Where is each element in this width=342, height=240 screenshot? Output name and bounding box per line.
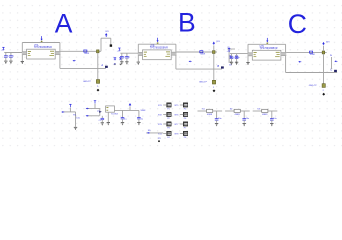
wire RC cell 2 right (240, 110, 249, 112)
wire rail right drop block B (175, 44, 177, 69)
capacitor C4 (216, 116, 218, 119)
ground RC cell 3 (270, 123, 273, 125)
connector P1 stub (163, 104, 166, 106)
port arrow block C (298, 61, 300, 63)
port A pad (105, 66, 108, 68)
ground CB2 (125, 61, 128, 63)
port arrow bias2 upper (86, 108, 88, 110)
svg-text:TPS76933DBVR: TPS76933DBVR (150, 47, 168, 50)
power port VIN arrow block A (41, 39, 43, 41)
capacitor C6 (271, 116, 273, 119)
solder jumper JB (212, 80, 215, 84)
solder jumper JC (322, 84, 325, 88)
pin tick TPB1 (230, 61, 232, 63)
svg-text:+5V: +5V (227, 51, 231, 53)
ground CA1 (4, 60, 7, 62)
test point TPA pad (97, 50, 100, 53)
connector P7 body (183, 122, 188, 126)
solder jumper JA (96, 80, 99, 84)
port C pad (334, 70, 337, 72)
port arrow connector row (147, 132, 149, 134)
svg-text:1u: 1u (238, 57, 240, 59)
UA right pin names (50, 50, 54, 52)
svg-text:600R: 600R (310, 54, 315, 56)
ground CC1 (230, 61, 233, 63)
capacitor CA2 (10, 53, 12, 56)
wire output net block A (61, 50, 102, 52)
svg-text:GND-TP: GND-TP (83, 81, 92, 83)
svg-text:+5V: +5V (117, 50, 121, 52)
ground rail left block B (137, 61, 140, 63)
no-erc marker block C (322, 93, 325, 96)
wire test point column block C (323, 54, 325, 84)
connector P6 body (183, 112, 188, 116)
wire rail right drop block C (285, 44, 287, 72)
wire rail left drop to ground block C (247, 44, 249, 62)
svg-text:1u: 1u (7, 56, 9, 58)
port arrow mid block C (334, 60, 336, 62)
wire output sense block B (176, 68, 222, 70)
wire rail left drop to ground block A (21, 43, 23, 62)
connector P2 body (167, 112, 172, 116)
power port +3V3 arrow block A (105, 33, 108, 35)
wire bridge top block A (101, 37, 111, 39)
port TPB1 glyph (230, 55, 233, 57)
svg-text:VREF: VREF (141, 110, 147, 112)
connector P3 body (167, 122, 172, 126)
pin 5 dot block B (157, 43, 159, 44)
svg-text:TPS76933DBVR: TPS76933DBVR (34, 46, 52, 49)
power flag bias cell 1 (69, 103, 71, 105)
capacitor CB1 (121, 53, 123, 56)
port B pad (221, 66, 224, 68)
wire output stub pair block B (171, 52, 176, 56)
wire input stub pair block C (248, 53, 253, 57)
connector P3 stub (163, 123, 166, 125)
ground C10 (101, 122, 104, 124)
wire output sense block A (60, 67, 106, 69)
svg-text:49R9: 49R9 (235, 114, 241, 116)
wire test point column block A (97, 53, 99, 80)
pin tick TPA1 (114, 63, 116, 65)
wire bridge up block A (100, 38, 102, 51)
ground U4 (107, 122, 110, 124)
port arrow bias1 (61, 111, 63, 113)
wire rail right drop block A (59, 43, 61, 69)
svg-text:B: B (217, 64, 219, 68)
capacitor CC1 (231, 54, 233, 57)
wire RC cell 1 right (213, 110, 222, 112)
UB left pin names (144, 51, 147, 53)
svg-text:Q1: Q1 (97, 110, 100, 112)
wire bridge down block A (110, 38, 112, 45)
svg-text:3V3: 3V3 (216, 41, 219, 43)
connector P5 body (183, 103, 188, 107)
svg-text:C: C (288, 9, 307, 39)
capacitor C5 (243, 116, 245, 119)
pin 5 dot block A (41, 41, 43, 42)
resistor R2 (207, 109, 213, 112)
pad bridge end block A (110, 44, 112, 46)
port TPA1 glyph (114, 57, 117, 59)
wire output net block C (286, 51, 327, 53)
connector P8 body (183, 131, 188, 135)
wire bias2 upper horizontal (87, 108, 100, 110)
pin tick TPB2 (236, 61, 238, 63)
wire port column block B (228, 49, 230, 63)
wire input net block A (4, 52, 22, 54)
svg-text:600R: 600R (200, 54, 205, 56)
resistor R10 column (75, 112, 77, 127)
port arrow block B (189, 61, 191, 63)
wire input stub pair block A (22, 51, 27, 55)
wire bias2 lower horizontal (87, 115, 100, 117)
connector P7 stub (180, 123, 183, 125)
svg-text:1u: 1u (12, 56, 14, 58)
UC left pin names (254, 52, 257, 54)
pad bottom extra (158, 140, 160, 142)
power flag input block C (228, 47, 230, 49)
svg-text:600R: 600R (84, 53, 89, 55)
port TPA2 glyph (119, 57, 122, 59)
pin tick TPA2 (120, 63, 122, 65)
capacitor C10 (101, 116, 103, 119)
wire input stub pair block B (138, 52, 143, 56)
wire test point column block B (213, 54, 215, 81)
test point TPC pad (322, 51, 325, 54)
ground C11 (121, 122, 124, 124)
ground CC2 (235, 61, 238, 63)
wire U4 ground stub (107, 112, 109, 122)
wire RC cell 1 tap (216, 111, 218, 116)
connector P4 body (167, 131, 172, 135)
ground rail left block C (246, 62, 249, 64)
connector P1 body (167, 103, 172, 107)
wire RC cell 2 left (225, 110, 234, 112)
resistor R3 (234, 109, 240, 112)
capacitor C12 (138, 110, 140, 117)
regulator UA body (27, 49, 56, 59)
port TPB2 glyph (235, 55, 238, 57)
connector P2 stub (163, 114, 166, 116)
svg-text:49R9: 49R9 (262, 114, 268, 116)
svg-text:1u: 1u (232, 57, 234, 59)
transistor Q1 (99, 109, 101, 116)
svg-text:TL1963: TL1963 (111, 114, 119, 116)
U4 pin names (106, 107, 108, 109)
wire bias1 vertical (69, 108, 71, 112)
resistor R4 (262, 109, 268, 112)
power port arrow block C (322, 42, 325, 44)
ground RC cell 1 (215, 123, 218, 125)
wire bias1 horizontal (63, 111, 76, 113)
ground CA2 (9, 60, 12, 62)
reference U4 body (106, 106, 115, 112)
wire port column block C (331, 57, 333, 69)
capacitor CA1 (5, 53, 7, 56)
port arrow block A (73, 60, 75, 62)
ferrite bead LA (84, 50, 87, 52)
wire RC cell 1 left (198, 110, 207, 112)
ground C12 (137, 122, 140, 124)
wire RC cell 3 tap (271, 111, 273, 116)
svg-text:+5V: +5V (1, 50, 5, 52)
test point TPB pad (213, 51, 216, 54)
wire output stub pair block C (281, 52, 286, 56)
wire +3V3 rail block C (248, 43, 286, 45)
wire bias2 vertical (94, 104, 96, 109)
UA left pin names (28, 50, 31, 52)
connector P8 stub (180, 133, 183, 135)
wire output stub pair block A (55, 51, 60, 55)
power port VIN arrow block C (266, 41, 268, 43)
power flag mid rail (129, 103, 132, 105)
wire column top tick block B (227, 48, 235, 50)
svg-text:B: B (178, 7, 196, 37)
regulator UB body (143, 50, 172, 60)
wire +3V3 rail block A (22, 42, 60, 44)
wire pad to power block B (213, 45, 215, 50)
ferrite bead LC (310, 51, 313, 53)
wire U4 output (114, 109, 138, 111)
port arrow bias2 lower (86, 115, 88, 117)
capacitor CC2 (236, 54, 238, 57)
capacitor C11 (122, 110, 124, 117)
power flag input block B (118, 47, 120, 49)
ground bias1 (74, 126, 77, 128)
svg-text:TPS76933DBVR: TPS76933DBVR (260, 47, 278, 50)
wire to connector P4 (146, 132, 163, 134)
svg-text:3V3: 3V3 (105, 31, 108, 33)
svg-text:1u: 1u (123, 56, 125, 58)
wire pad to power block C (323, 46, 325, 51)
svg-text:1u: 1u (128, 56, 130, 58)
wire RC cell 3 left (253, 110, 262, 112)
svg-text:GND-TP: GND-TP (309, 85, 318, 87)
power flag input block A (2, 46, 4, 48)
svg-text:3V3: 3V3 (326, 41, 329, 43)
pin 5 dot block C (267, 43, 269, 44)
wire input net block B (120, 52, 138, 54)
wire RC cell 3 right (268, 110, 277, 112)
wire input net block C (230, 53, 248, 55)
wire +3V3 rail block B (138, 43, 176, 45)
svg-text:GND-TP: GND-TP (199, 82, 208, 84)
UC right pin names (276, 51, 280, 53)
ground RC cell 2 (243, 123, 246, 125)
ferrite bead LB (200, 51, 203, 53)
svg-text:A: A (55, 9, 73, 39)
connector P4 stub (163, 133, 166, 135)
wire rail left drop to ground block B (137, 44, 139, 62)
wire output sense block C (286, 72, 338, 74)
ground CB1 (120, 61, 123, 63)
connector P5 stub (180, 104, 183, 106)
power port VIN arrow block B (157, 40, 159, 42)
capacitor CB2 (126, 53, 128, 56)
regulator UC body (252, 50, 281, 60)
no-erc marker block B (213, 89, 216, 92)
wire output net block B (177, 51, 218, 53)
connector P6 stub (180, 114, 183, 116)
power port arrow block B (213, 42, 216, 44)
svg-text:A: A (100, 63, 103, 67)
svg-text:49R9: 49R9 (207, 114, 213, 116)
ground rail left block A (21, 60, 24, 62)
power flag bias cell 2 (94, 100, 96, 102)
UB right pin names (166, 51, 170, 53)
no-erc marker block A (97, 89, 100, 92)
wire RC cell 2 tap (243, 111, 245, 116)
